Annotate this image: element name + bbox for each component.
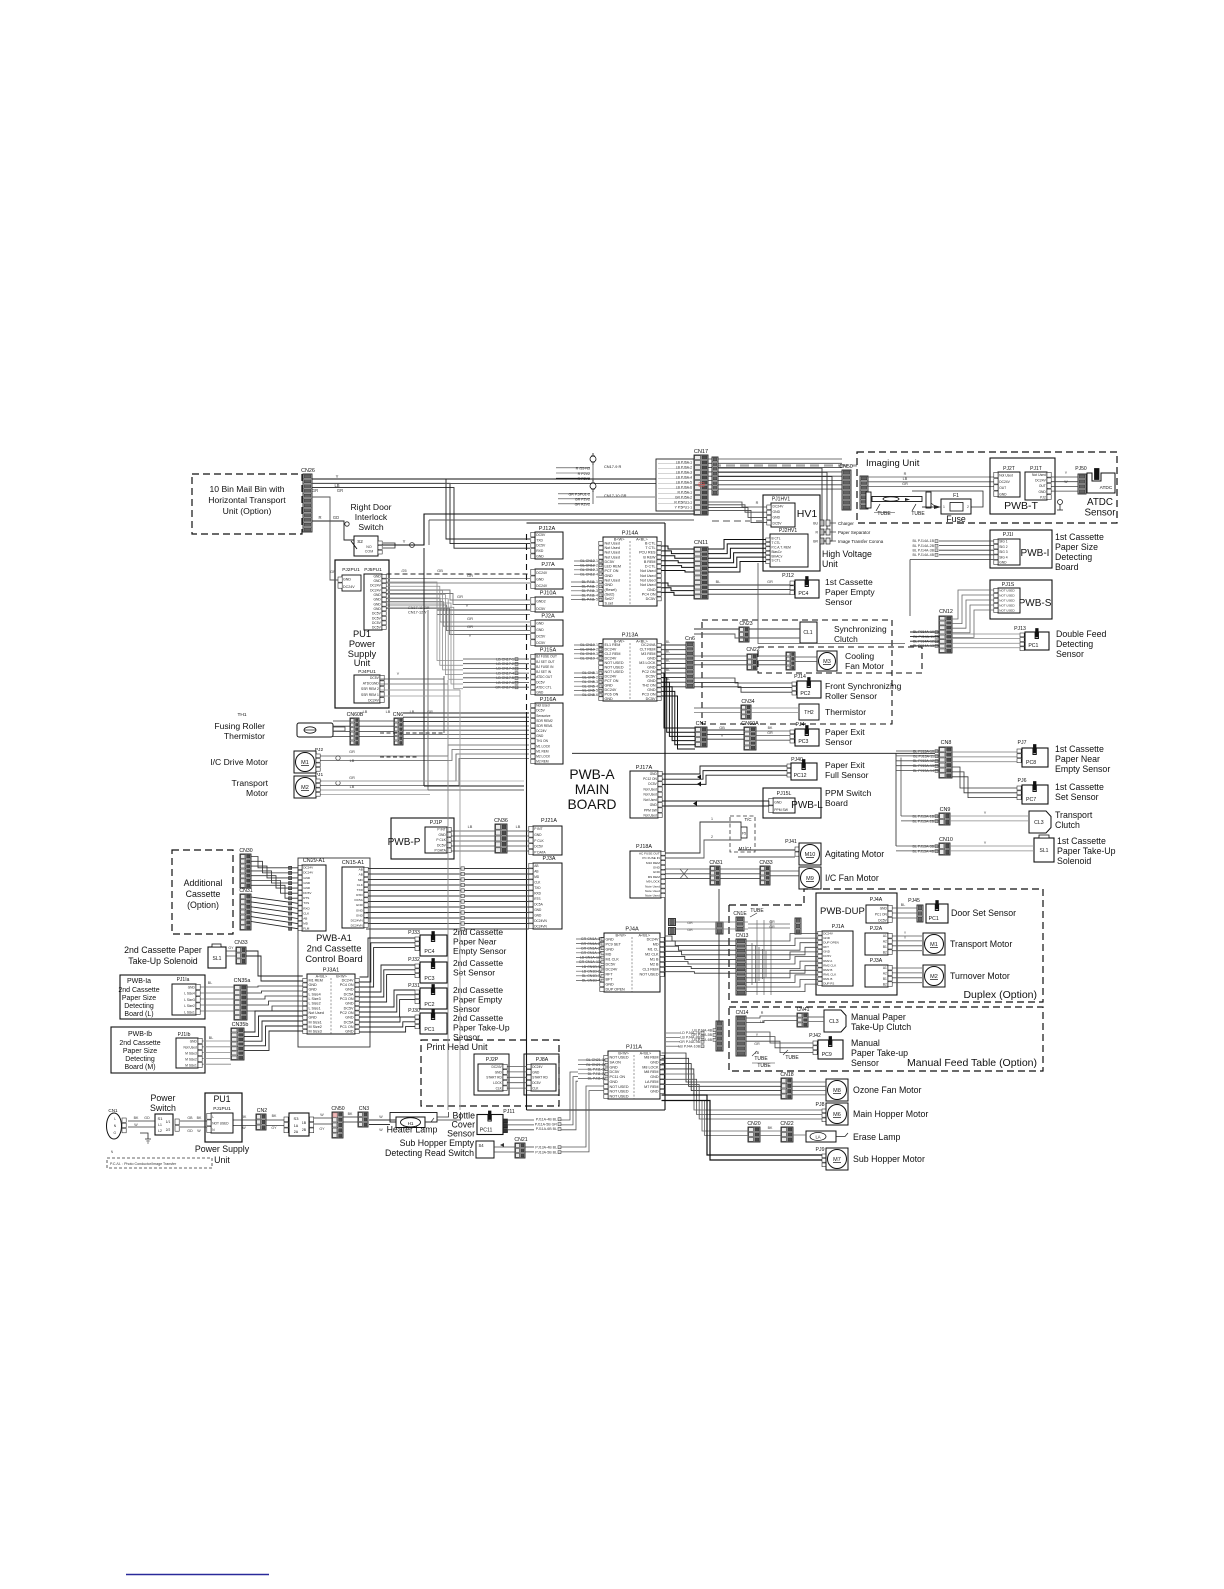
svg-text:Clutch: Clutch xyxy=(1055,820,1080,830)
fuse F1 xyxy=(912,491,983,524)
wires PJ13A to CN7 to PC3 xyxy=(662,673,791,749)
svg-text:Unit: Unit xyxy=(354,658,371,668)
svg-text:Agitating Motor: Agitating Motor xyxy=(825,849,884,859)
connector PJ8A xyxy=(524,1054,559,1095)
svg-text:PU1: PU1 xyxy=(353,629,371,639)
svg-text:DC5V: DC5V xyxy=(878,918,887,922)
svg-text:FLM: FLM xyxy=(303,927,310,931)
svg-text:BL PJ14A-2B: BL PJ14A-2B xyxy=(913,544,935,548)
svg-text:NOT USED: NOT USED xyxy=(999,609,1015,613)
svg-text:TXD: TXD xyxy=(357,888,364,892)
svg-text:LOCK: LOCK xyxy=(493,1081,503,1085)
svg-text:PJ2A: PJ2A xyxy=(870,926,883,932)
svg-text:M1 B: M1 B xyxy=(650,958,659,962)
svg-text:Board: Board xyxy=(1055,562,1079,572)
wire bundle PJ5PU1 to PJ2A xyxy=(387,598,531,638)
svg-text:LB PJ4A-10B: LB PJ4A-10B xyxy=(678,1044,700,1048)
wires PJ4A to door sensor xyxy=(893,903,918,918)
svg-text:R: R xyxy=(904,472,907,476)
label Imaging Unit xyxy=(866,458,920,469)
svg-text:Take-Up Solenoid: Take-Up Solenoid xyxy=(128,956,198,966)
svg-text:DC5V: DC5V xyxy=(646,597,656,601)
svg-text:M2 B: M2 B xyxy=(650,963,659,967)
svg-text:MD: MD xyxy=(653,943,659,947)
label PJ2PU1 PJ5PU1 xyxy=(342,567,382,573)
svg-text:BL: BL xyxy=(209,1036,213,1040)
10 Bin Mail Bin option dashed box xyxy=(192,474,302,534)
wires CN50 to CN3 xyxy=(343,1112,358,1122)
svg-text:PC1: PC1 xyxy=(424,1027,434,1033)
svg-text:DC5V: DC5V xyxy=(605,560,615,564)
svg-text:OUT: OUT xyxy=(1039,484,1046,488)
svg-text:W: W xyxy=(134,1123,138,1127)
PWB-A1 outline xyxy=(298,858,370,1047)
svg-text:RM2 B: RM2 B xyxy=(823,968,832,972)
sensor PC1 2nd cassette xyxy=(408,1008,510,1042)
svg-text:Y: Y xyxy=(469,633,472,638)
svg-text:SA ON: SA ON xyxy=(610,1060,622,1064)
svg-text:DC5V: DC5V xyxy=(372,612,382,616)
svg-text:GND: GND xyxy=(495,1070,503,1074)
svg-text:M8 LOCK: M8 LOCK xyxy=(642,1065,659,1069)
svg-text:GND: GND xyxy=(356,913,364,917)
duplex dashed box xyxy=(729,889,1043,1002)
board PWB-T box xyxy=(990,458,1055,514)
svg-text:SDR REM1: SDR REM1 xyxy=(536,724,553,728)
svg-text:GND: GND xyxy=(773,516,781,520)
svg-text:L Size4: L Size4 xyxy=(309,992,321,996)
connector CN35 xyxy=(786,652,795,670)
svg-text:Y: Y xyxy=(397,671,400,676)
svg-text:2nd Cassette: 2nd Cassette xyxy=(453,985,503,995)
svg-text:Detecting: Detecting xyxy=(1056,639,1093,649)
connector PJ4PU1 xyxy=(354,669,384,703)
svg-text:Manual Paper: Manual Paper xyxy=(851,1012,906,1022)
svg-text:PJ17A: PJ17A xyxy=(636,765,653,771)
connector PJ50 xyxy=(1075,466,1087,494)
svg-text:TUBE: TUBE xyxy=(757,1063,771,1069)
sensor PC8 1st cassette paper near empty xyxy=(1017,740,1110,774)
svg-text:AB: AB xyxy=(359,868,363,872)
svg-text:Set Sensor: Set Sensor xyxy=(453,968,495,978)
connector PJ1T xyxy=(1025,466,1051,500)
svg-text:L Size2: L Size2 xyxy=(184,1004,195,1008)
svg-text:S.set: S.set xyxy=(605,602,613,606)
svg-text:DC5V: DC5V xyxy=(372,626,382,630)
svg-text:GND: GND xyxy=(188,985,196,989)
connector PJ17A xyxy=(630,765,662,818)
svg-text:Empty Sensor: Empty Sensor xyxy=(1055,764,1110,774)
svg-text:2: 2 xyxy=(711,835,713,839)
main board inner line xyxy=(572,752,935,754)
svg-text:M3 LOCK: M3 LOCK xyxy=(639,661,656,665)
svg-text:Clutch: Clutch xyxy=(834,634,858,644)
svg-text:PJ8A: PJ8A xyxy=(536,1057,549,1063)
svg-text:M8 REM: M8 REM xyxy=(644,1056,658,1060)
connector CN50 imaging xyxy=(839,464,852,510)
imaging unit dashed box xyxy=(857,452,1117,523)
svg-text:S CTL: S CTL xyxy=(772,559,781,563)
wires CN8 to PC7 xyxy=(952,767,1017,798)
label High Voltage Unit xyxy=(822,549,872,569)
svg-text:M9 REM: M9 REM xyxy=(648,875,660,879)
svg-text:Not Used: Not Used xyxy=(605,541,620,545)
svg-text:2nd Cassette: 2nd Cassette xyxy=(453,1013,503,1023)
svg-text:GR: GR xyxy=(754,1042,760,1046)
svg-text:DC24V: DC24V xyxy=(773,505,785,509)
connector CN26 xyxy=(301,468,315,532)
svg-text:(Option): (Option) xyxy=(187,900,219,910)
svg-text:M1 REM: M1 REM xyxy=(309,978,323,982)
svg-text:M1 CL: M1 CL xyxy=(648,948,659,952)
svg-text:Sensor: Sensor xyxy=(851,1058,879,1068)
PU1 power supply box bottom xyxy=(205,1093,242,1142)
main board left dashed edge xyxy=(526,534,528,712)
connector CN13 xyxy=(736,933,749,995)
main hopper motor M6 xyxy=(816,1102,929,1125)
svg-text:L Size4: L Size4 xyxy=(184,992,195,996)
svg-text:PJ13A-5B BL: PJ13A-5B BL xyxy=(535,1150,557,1154)
svg-text:GND: GND xyxy=(650,1075,659,1079)
svg-text:PJ30: PJ30 xyxy=(408,1008,420,1014)
svg-text:Unit (Option): Unit (Option) xyxy=(223,506,272,516)
svg-text:PJ4PU1: PJ4PU1 xyxy=(358,669,376,675)
svg-text:Sensor: Sensor xyxy=(447,1129,475,1139)
svg-text:L1: L1 xyxy=(158,1123,162,1127)
svg-text:DC5V: DC5V xyxy=(648,782,657,786)
svg-text:DC5V: DC5V xyxy=(606,963,616,967)
svg-text:TUBE: TUBE xyxy=(750,908,764,914)
svg-text:DC5V: DC5V xyxy=(303,891,312,895)
svg-text:PPM Switch: PPM Switch xyxy=(825,788,872,798)
svg-text:M Size1: M Size1 xyxy=(185,1063,197,1067)
connector PJ5PU1 xyxy=(364,574,386,630)
connector CN3 xyxy=(358,1106,369,1127)
connector PJ2A duplex xyxy=(865,926,892,955)
svg-text:M3: M3 xyxy=(823,659,831,665)
svg-text:M Size3: M Size3 xyxy=(309,1030,322,1034)
svg-text:Manual Feed Table (Option): Manual Feed Table (Option) xyxy=(907,1057,1037,1069)
wires Cn6 to PC2 xyxy=(694,678,792,692)
svg-text:D CTL: D CTL xyxy=(645,565,656,569)
svg-text:BR: BR xyxy=(813,539,818,543)
svg-text:NOT USED: NOT USED xyxy=(640,973,659,977)
svg-text:DC24V: DC24V xyxy=(303,866,314,870)
svg-text:LB PJ6A-2: LB PJ6A-2 xyxy=(676,466,692,470)
heater lamp H1 xyxy=(369,1112,461,1135)
svg-text:RM2 CLK: RM2 CLK xyxy=(823,963,836,967)
connector PJ3A main board xyxy=(529,856,562,929)
svg-text:NOT USED: NOT USED xyxy=(212,1121,229,1125)
svg-text:DC5V: DC5V xyxy=(536,607,546,611)
sensor PC3 paper exit xyxy=(790,722,865,747)
block PJ18A xyxy=(630,844,665,898)
svg-text:LB: LB xyxy=(755,1051,760,1055)
connector CN41 xyxy=(797,1007,810,1027)
svg-text:DC24V: DC24V xyxy=(1035,479,1046,483)
harness connector manual feed xyxy=(691,1021,723,1051)
svg-text:DC5V: DC5V xyxy=(823,954,831,958)
sub hopper motor M7 xyxy=(816,1147,925,1170)
svg-text:1st Cassette: 1st Cassette xyxy=(1055,782,1104,792)
svg-text:M2 REM: M2 REM xyxy=(536,760,549,764)
wires to erase lamp xyxy=(702,1100,806,1136)
svg-text:DC24V: DC24V xyxy=(370,588,381,592)
wire tags to CN8 xyxy=(896,749,939,773)
svg-text:BL PJ13A-11: BL PJ13A-11 xyxy=(913,754,934,758)
svg-text:GR R2V2: GR R2V2 xyxy=(575,503,590,507)
svg-text:PCT ON: PCT ON xyxy=(605,679,619,683)
svg-text:W: W xyxy=(379,1115,383,1119)
svg-text:RXD: RXD xyxy=(303,906,310,910)
PU1 power supply unit box xyxy=(335,560,389,708)
svg-text:PJ2HV1: PJ2HV1 xyxy=(779,528,798,534)
svg-text:Not Used: Not Used xyxy=(999,474,1013,478)
svg-text:F5: F5 xyxy=(742,832,746,836)
svg-text:PC3: PC3 xyxy=(798,739,808,745)
svg-text:SSR REM 1: SSR REM 1 xyxy=(361,693,379,697)
svg-text:PU1: PU1 xyxy=(213,1094,230,1104)
svg-text:LB PJ6A-6: LB PJ6A-6 xyxy=(676,486,692,490)
svg-text:Sensor: Sensor xyxy=(825,597,852,607)
svg-text:CLK: CLK xyxy=(534,880,541,884)
svg-text:GND: GND xyxy=(999,492,1007,496)
svg-text:DC24V: DC24V xyxy=(605,657,617,661)
svg-text:M2: M2 xyxy=(930,974,938,980)
svg-text:R P2V2: R P2V2 xyxy=(578,472,590,476)
svg-text:Cassette: Cassette xyxy=(186,889,221,899)
thermistor TH2 xyxy=(799,704,866,720)
svg-text:MAIN: MAIN xyxy=(575,782,610,797)
svg-text:GR: GR xyxy=(457,594,463,599)
svg-text:GR PJ4A-9B: GR PJ4A-9B xyxy=(679,1040,700,1044)
dashed box synchronizing group xyxy=(702,620,892,724)
svg-text:LB: LB xyxy=(468,825,473,829)
svg-text:LB PJ6A-4: LB PJ6A-4 xyxy=(676,476,692,480)
charger rows xyxy=(813,520,883,544)
svg-text:1A: 1A xyxy=(294,1124,299,1128)
connector PJ2PU1 xyxy=(312,497,361,591)
svg-text:GND: GND xyxy=(1038,490,1046,494)
svg-text:SL1: SL1 xyxy=(1040,848,1049,854)
connector PJ1HV1 xyxy=(767,497,795,528)
svg-text:BL PJ13A-12: BL PJ13A-12 xyxy=(913,759,934,763)
svg-text:M9: M9 xyxy=(806,876,814,882)
svg-text:DC5V: DC5V xyxy=(610,1070,620,1074)
svg-text:GND: GND xyxy=(773,510,781,514)
svg-text:LB: LB xyxy=(516,825,521,829)
PJ2HV1 box xyxy=(766,528,808,567)
svg-text:MD: MD xyxy=(358,878,364,882)
svg-text:GND: GND xyxy=(536,691,544,695)
connector CN8 xyxy=(939,740,952,778)
svg-text:GR: GR xyxy=(769,920,775,924)
svg-text:PJ33: PJ33 xyxy=(408,930,420,936)
svg-text:GB: GB xyxy=(187,1116,193,1120)
svg-text:SL1: SL1 xyxy=(213,956,222,962)
svg-text:PJ13A-4B BL: PJ13A-4B BL xyxy=(535,1145,557,1149)
svg-text:RXD: RXD xyxy=(536,549,544,553)
wire bundle PJ5PU1 to PJ7A xyxy=(387,568,531,583)
power inlet plug xyxy=(107,1113,152,1143)
svg-text:GND: GND xyxy=(650,1090,659,1094)
PCU dashed note box xyxy=(107,1150,212,1168)
svg-text:BL: BL xyxy=(901,903,905,907)
svg-text:Cooling: Cooling xyxy=(845,651,874,661)
svg-text:PJ8: PJ8 xyxy=(816,1102,825,1108)
svg-text:RM1 CLK: RM1 CLK xyxy=(823,973,836,977)
svg-text:M1: M1 xyxy=(301,760,309,766)
svg-text:AB: AB xyxy=(534,869,538,873)
svg-text:PJ41: PJ41 xyxy=(785,839,797,845)
svg-text:AB: AB xyxy=(534,864,538,868)
svg-text:DC5V: DC5V xyxy=(773,521,783,525)
svg-text:Transport: Transport xyxy=(232,778,269,788)
clutch CL3 transport xyxy=(1029,810,1093,833)
svg-text:GND: GND xyxy=(536,577,544,581)
svg-text:Paper Empty: Paper Empty xyxy=(825,587,875,597)
sensor PC3 2nd cassette xyxy=(408,957,503,983)
svg-text:Paper Size: Paper Size xyxy=(123,1048,157,1055)
svg-text:PJ31: PJ31 xyxy=(408,983,420,989)
connector CN7 xyxy=(695,721,707,747)
wires PJ14A to CN11 xyxy=(662,546,695,572)
svg-text:DC24V: DC24V xyxy=(303,871,314,875)
IC fan motor M9 xyxy=(799,867,879,889)
svg-text:B REM: B REM xyxy=(644,560,656,564)
sensor PC9 manual take-up xyxy=(809,1033,908,1068)
svg-text:CN29-A1: CN29-A1 xyxy=(303,858,325,864)
wires CN35a to PJ3A1 xyxy=(247,986,303,1011)
svg-text:DUP OPEN: DUP OPEN xyxy=(606,988,626,992)
svg-text:M8: M8 xyxy=(833,1088,841,1094)
svg-text:L Size2: L Size2 xyxy=(309,1002,321,1006)
svg-text:BK: BK xyxy=(242,1115,247,1119)
svg-text:TUBE: TUBE xyxy=(754,1056,768,1062)
sensor PC1 double feed xyxy=(1014,626,1106,659)
svg-text:M10 REM: M10 REM xyxy=(646,861,660,865)
svg-text:PC1 ON: PC1 ON xyxy=(340,1025,354,1029)
block PJ11A xyxy=(604,1045,664,1100)
wire tags left of PJ4A xyxy=(576,937,604,982)
svg-text:NOT USED: NOT USED xyxy=(605,661,624,665)
svg-text:M Size2: M Size2 xyxy=(309,1025,322,1029)
svg-text:BL: BL xyxy=(208,981,212,985)
svg-text:PC6 ON: PC6 ON xyxy=(605,692,619,696)
svg-text:P INT: P INT xyxy=(437,828,445,832)
svg-text:BmACv: BmACv xyxy=(772,554,783,558)
svg-text:Not Used: Not Used xyxy=(644,798,658,802)
svg-text:CN2: CN2 xyxy=(257,1108,267,1114)
svg-text:GND: GND xyxy=(647,657,656,661)
svg-text:GND: GND xyxy=(647,688,656,692)
svg-text:PJ32: PJ32 xyxy=(408,957,420,963)
svg-text:B2: B2 xyxy=(883,950,887,954)
connector CN36 xyxy=(494,818,508,853)
connector CN14 xyxy=(736,1010,749,1056)
svg-text:DC5V: DC5V xyxy=(536,709,545,713)
wires PJ3A to M2 xyxy=(893,968,923,983)
svg-text:Control Board: Control Board xyxy=(305,954,362,964)
svg-text:Power: Power xyxy=(151,1093,176,1103)
svg-text:Not Used: Not Used xyxy=(1032,473,1046,477)
wire tags to PWB-I xyxy=(910,539,994,616)
svg-text:PC12 ON: PC12 ON xyxy=(643,777,657,781)
svg-text:CN14: CN14 xyxy=(736,1010,749,1016)
solenoid SL1 2nd cassette xyxy=(208,944,226,968)
svg-text:BJ FUSE IN: BJ FUSE IN xyxy=(536,665,554,669)
svg-text:BK: BK xyxy=(272,1114,277,1118)
svg-text:CN31: CN31 xyxy=(239,888,252,894)
svg-text:B1: B1 xyxy=(883,945,887,949)
label CN1 xyxy=(108,1108,118,1113)
svg-text:BL: BL xyxy=(666,649,670,653)
wires PWB-Ia to CN35a xyxy=(201,981,235,1011)
svg-text:PJ1I: PJ1I xyxy=(1003,532,1013,538)
svg-text:Fan Motor: Fan Motor xyxy=(845,661,884,671)
svg-text:2nd Cassette: 2nd Cassette xyxy=(453,958,503,968)
svg-text:PWB-P: PWB-P xyxy=(388,837,421,848)
svg-text:PJ3A: PJ3A xyxy=(870,958,883,964)
svg-text:SSR REM 2: SSR REM 2 xyxy=(361,687,379,691)
svg-text:R PJ5A-1: R PJ5A-1 xyxy=(677,491,692,495)
svg-text:DC24V: DC24V xyxy=(532,1065,543,1069)
svg-text:MD: MD xyxy=(606,953,612,957)
svg-text:PJ12A: PJ12A xyxy=(539,526,556,532)
svg-text:CLK: CLK xyxy=(303,911,310,915)
svg-text:B R&W: B R&W xyxy=(643,555,656,559)
svg-text:LB: LB xyxy=(386,710,391,714)
svg-text:BL PJ14A-4B: BL PJ14A-4B xyxy=(913,553,935,557)
block PJ13A xyxy=(599,633,661,702)
wires CN17 to PJ1HV1 xyxy=(708,501,767,523)
svg-text:PJ1P: PJ1P xyxy=(430,820,443,826)
svg-text:RTS: RTS xyxy=(534,897,540,901)
svg-text:Paper Separator: Paper Separator xyxy=(838,530,871,535)
svg-text:PJ1T: PJ1T xyxy=(1030,466,1042,472)
svg-text:DC24V: DC24V xyxy=(368,698,379,702)
svg-text:PC4: PC4 xyxy=(798,591,808,597)
svg-text:BL PJ13A-10: BL PJ13A-10 xyxy=(913,749,934,753)
svg-text:NOT USED: NOT USED xyxy=(999,594,1015,598)
connector CN15-A1 xyxy=(342,860,368,928)
svg-text:DC5V: DC5V xyxy=(370,676,380,680)
label Power Switch xyxy=(150,1093,176,1113)
svg-text:W: W xyxy=(379,1128,383,1132)
svg-text:AB: AB xyxy=(303,916,307,920)
svg-text:PC9 SET: PC9 SET xyxy=(606,943,622,947)
wires to M6 xyxy=(662,1074,823,1119)
svg-text:Board (L): Board (L) xyxy=(124,1011,153,1018)
svg-text:GND: GND xyxy=(309,1016,318,1020)
connector PJ4A duplex xyxy=(866,897,892,923)
board PWB-L xyxy=(763,788,872,818)
svg-text:GR: GR xyxy=(467,573,473,578)
vertical feed lines right column xyxy=(896,751,906,846)
svg-text:W: W xyxy=(1064,480,1068,484)
svg-text:CN35b: CN35b xyxy=(232,1022,249,1028)
svg-text:Y: Y xyxy=(403,539,406,544)
svg-text:ATDC: ATDC xyxy=(1100,485,1113,491)
svg-text:L Size3: L Size3 xyxy=(184,998,195,1002)
svg-text:GND: GND xyxy=(373,574,381,578)
svg-text:PPM SW: PPM SW xyxy=(774,808,789,812)
wire bundle main board to bottom motors xyxy=(662,1053,782,1095)
svg-text:Main Hopper Motor: Main Hopper Motor xyxy=(853,1109,928,1119)
svg-text:BL: BL xyxy=(666,640,670,644)
svg-text:A1: A1 xyxy=(883,966,887,970)
svg-text:Fuse: Fuse xyxy=(946,514,966,524)
